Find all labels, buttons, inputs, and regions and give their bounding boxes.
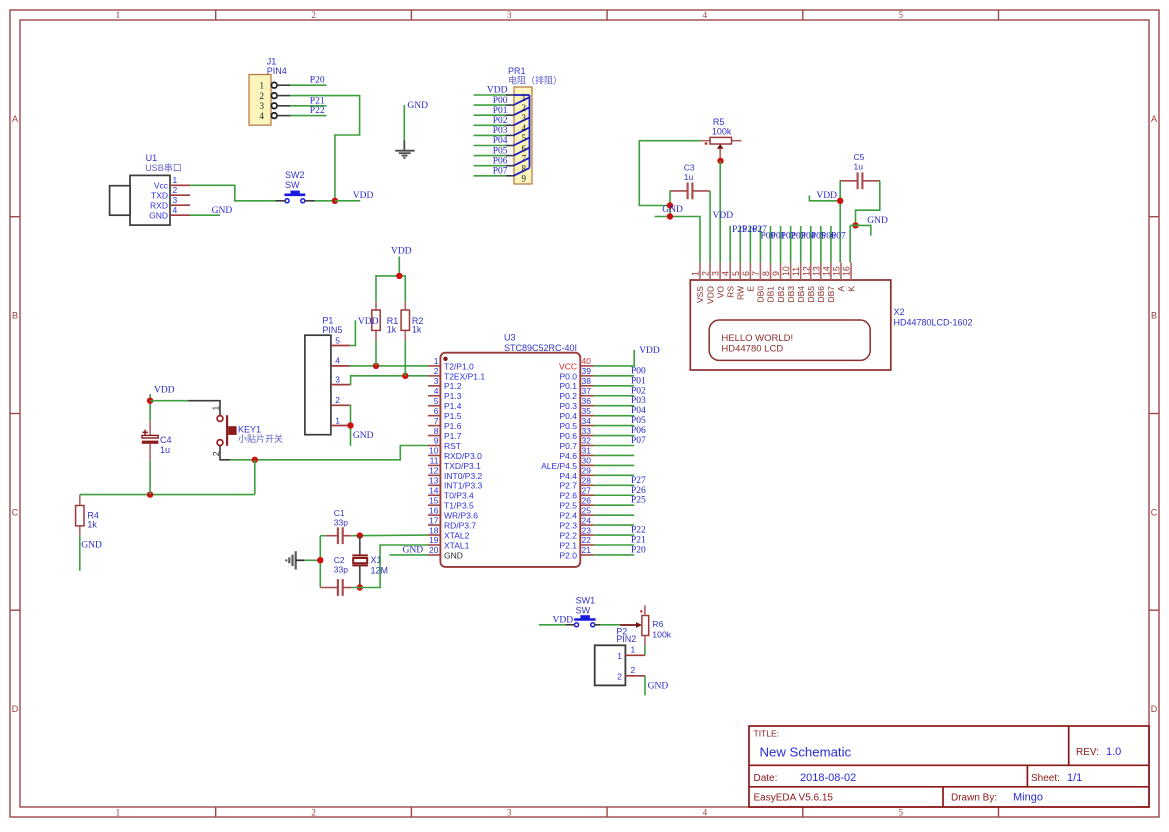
svg-text:P20: P20 <box>631 545 646 555</box>
svg-text:2: 2 <box>335 395 340 405</box>
svg-text:EasyEDA V5.6.15: EasyEDA V5.6.15 <box>754 793 834 804</box>
wire R6 to P2 pin1 <box>644 646 646 655</box>
wire LCD pin 9 vertical <box>780 226 782 263</box>
resistor network PR1 body <box>514 87 532 184</box>
junction GND at LCD K pin <box>852 222 858 228</box>
wire U3 pin 35 to net P04 <box>594 415 634 417</box>
svg-text:T0/P3.4: T0/P3.4 <box>444 491 474 501</box>
wire LCD pin 5 vertical <box>739 226 741 263</box>
wire LCD pin 4 vertical <box>729 226 731 263</box>
svg-text:10: 10 <box>429 446 439 456</box>
U3 right pin 34 stub <box>580 425 594 427</box>
wire VDD loop left of R5 <box>639 141 700 206</box>
svg-text:34: 34 <box>582 416 592 426</box>
svg-text:P02: P02 <box>493 116 508 126</box>
svg-text:13: 13 <box>429 476 439 486</box>
svg-text:RXD: RXD <box>150 201 168 211</box>
svg-text:6: 6 <box>522 143 527 153</box>
U3 left pin 13 stub <box>428 484 440 486</box>
ground symbol sideways at crystal <box>295 551 297 569</box>
svg-text:3: 3 <box>711 271 721 276</box>
svg-text:GND: GND <box>81 540 102 550</box>
wire LCD pin 8 vertical <box>769 226 771 263</box>
U3 left pin 4 stub <box>428 395 440 397</box>
title block REV divider <box>1068 726 1070 765</box>
junction C1/X1 top <box>357 532 363 538</box>
U3 left pin 6 stub <box>428 415 440 417</box>
wire C1 left loop down to C2 <box>319 536 321 588</box>
U3 left pin 2 stub <box>428 375 440 377</box>
svg-text:DB0: DB0 <box>756 286 766 303</box>
J1 pin 4 lead and circle <box>271 113 277 119</box>
svg-text:P02: P02 <box>631 386 646 396</box>
svg-text:P1.3: P1.3 <box>444 391 462 401</box>
wire U3 pin 34 to net P05 <box>594 425 634 427</box>
PR1 pin 9 wire and net label P07 <box>474 175 506 177</box>
svg-text:1: 1 <box>691 271 701 276</box>
svg-text:30: 30 <box>582 456 592 466</box>
wire U3 pin 32 to net P07 <box>594 445 634 447</box>
wire KEY1 to U3 RST <box>230 446 428 460</box>
svg-text:INT1/P3.3: INT1/P3.3 <box>444 481 483 491</box>
wire C4/R4 horizontal <box>80 494 255 496</box>
PR1 pin 8 wire and net label P06 <box>474 165 506 167</box>
svg-text:1: 1 <box>617 651 622 661</box>
LCD pin 16 stub <box>850 263 852 280</box>
frame row ticks right <box>1149 216 1159 218</box>
switch SW1 symbol <box>574 618 595 621</box>
U3 right pin 39 stub <box>580 375 594 377</box>
wire U3 pin 29 unlabeled <box>594 474 634 476</box>
U1 pin 3 stub <box>170 204 190 206</box>
wire U3 pin 38 to net P01 <box>594 385 634 387</box>
R6 pin1 marker dot <box>640 610 642 612</box>
U3 right pin 40 stub <box>580 365 594 367</box>
svg-text:P06: P06 <box>631 426 646 436</box>
wire R5 wiper down to LCD VO pin <box>719 161 721 263</box>
junction VDD at C5 <box>837 198 843 204</box>
svg-text:2018-08-02: 2018-08-02 <box>800 772 856 784</box>
svg-text:Vcc: Vcc <box>154 181 169 191</box>
title block Sheet divider <box>1026 765 1028 787</box>
crystal X1 top lead <box>359 536 361 556</box>
resistor R2 body <box>401 310 409 330</box>
title block outline <box>749 726 1149 807</box>
svg-text:GND: GND <box>867 216 888 226</box>
P2 pin 1 stub <box>625 654 645 656</box>
svg-text:DB1: DB1 <box>766 286 776 303</box>
svg-text:1: 1 <box>173 175 178 185</box>
wire R2 bottom to pin2 row <box>404 340 406 375</box>
svg-text:13: 13 <box>811 266 821 276</box>
svg-text:P0.2: P0.2 <box>560 391 578 401</box>
LCD pin 11 stub <box>800 263 802 280</box>
svg-text:P0.3: P0.3 <box>560 401 578 411</box>
svg-text:C: C <box>1151 507 1158 517</box>
svg-text:T2/P1.0: T2/P1.0 <box>444 361 474 371</box>
svg-text:VDD: VDD <box>154 385 175 395</box>
svg-text:P2.0: P2.0 <box>560 550 578 560</box>
potentiometer R5 body <box>710 137 732 144</box>
svg-text:A: A <box>836 286 846 292</box>
R5 pin1 marker dot <box>705 142 708 145</box>
svg-text:New Schematic: New Schematic <box>760 745 852 760</box>
svg-text:VDD: VDD <box>705 286 715 304</box>
U3 right pin 33 stub <box>580 435 594 437</box>
svg-text:1k: 1k <box>412 325 422 335</box>
svg-text:29: 29 <box>582 466 592 476</box>
svg-text:10: 10 <box>781 266 791 276</box>
svg-text:P0.6: P0.6 <box>560 431 578 441</box>
wire C3 right down to LCD VDD pin <box>709 191 711 263</box>
svg-text:1: 1 <box>211 406 221 411</box>
LCD pin 2 stub <box>709 263 711 280</box>
LCD pin 12 stub <box>810 263 812 280</box>
svg-text:P25: P25 <box>631 496 646 506</box>
USB connector U1 plug box <box>110 186 130 216</box>
svg-text:P04: P04 <box>631 406 646 416</box>
wire U3 pin 27 to net P26 <box>594 494 634 496</box>
svg-text:E: E <box>746 286 756 292</box>
svg-text:16: 16 <box>842 266 852 276</box>
wire LCD pin 12 vertical <box>810 226 812 263</box>
svg-text:1.0: 1.0 <box>1106 746 1121 758</box>
svg-text:VDD: VDD <box>487 86 508 96</box>
svg-text:3: 3 <box>434 376 439 386</box>
svg-text:STC89C52RC-40I: STC89C52RC-40I <box>504 343 577 353</box>
U3 left pin 14 stub <box>428 494 440 496</box>
svg-text:SW: SW <box>576 605 591 615</box>
junction GND wire <box>667 213 673 219</box>
P1 pin 5 stub <box>331 345 350 347</box>
PR1 resistor diagonal 1 <box>514 97 530 105</box>
junction VDD R1/R2 <box>396 273 402 279</box>
svg-text:VDD: VDD <box>358 317 379 327</box>
wire U3 pin 30 unlabeled <box>594 464 634 466</box>
capacitor C2 <box>337 579 339 596</box>
svg-text:P26: P26 <box>631 486 646 496</box>
wire stem of floating GND flag <box>403 105 405 140</box>
KEY1 pin2 lead <box>220 446 230 460</box>
wire P1 pin2 down to pin1/GND <box>349 405 352 446</box>
capacitor C3 <box>686 183 688 200</box>
svg-text:VCC: VCC <box>559 361 577 371</box>
PR1 first pin link <box>514 94 530 96</box>
LCD pin 1 stub <box>699 263 701 280</box>
PR1 pin 2 wire and net label P00 <box>474 104 506 106</box>
svg-text:31: 31 <box>582 446 592 456</box>
svg-text:C4: C4 <box>160 435 172 445</box>
junction at SW2/VDD <box>332 198 338 204</box>
C3 left lead <box>670 190 688 192</box>
svg-text:24: 24 <box>582 515 592 525</box>
wire U3 VCC to VDD <box>594 350 634 366</box>
polarized capacitor C4 top lead <box>149 421 151 436</box>
wire U3 GND pin20 <box>390 554 429 556</box>
svg-text:PIN5: PIN5 <box>322 325 342 335</box>
wire R1 bottom to pin1 row <box>375 340 377 366</box>
PR1 resistor diagonal 8 <box>514 168 530 176</box>
P1 pin 1 stub <box>331 425 350 427</box>
svg-text:A: A <box>1151 114 1157 124</box>
svg-text:21: 21 <box>582 545 592 555</box>
svg-text:3: 3 <box>260 101 265 111</box>
svg-text:X2: X2 <box>894 307 905 317</box>
svg-text:TITLE:: TITLE: <box>754 729 780 739</box>
svg-text:33p: 33p <box>334 564 348 574</box>
svg-text:17: 17 <box>429 515 439 525</box>
polarized capacitor C4 bottom lead <box>149 444 151 460</box>
svg-text:B: B <box>12 311 18 321</box>
svg-text:GND: GND <box>444 550 463 560</box>
wire LCD pin 6 vertical <box>749 226 751 263</box>
P1 pin 4 stub <box>331 365 350 367</box>
svg-text:P2.1: P2.1 <box>560 540 578 550</box>
switch SW2 symbol <box>284 194 305 197</box>
C5 right lead <box>862 180 879 182</box>
wire R4 bottom GND stub <box>79 535 81 571</box>
U3 right pin 36 stub <box>580 405 594 407</box>
wire LCD K pin vertical <box>849 225 851 262</box>
svg-text:P00: P00 <box>493 96 508 106</box>
svg-text:HD44780 LCD: HD44780 LCD <box>721 344 783 355</box>
svg-text:VDD: VDD <box>353 191 374 201</box>
U3 left pin 8 stub <box>428 435 440 437</box>
LCD X2 body <box>690 280 891 370</box>
svg-text:5: 5 <box>731 271 741 276</box>
svg-text:5: 5 <box>522 133 527 143</box>
svg-text:RW: RW <box>735 286 745 300</box>
resistor R4 body <box>76 506 84 526</box>
svg-text:D: D <box>1151 704 1158 714</box>
svg-text:小贴片开关: 小贴片开关 <box>238 433 283 444</box>
svg-text:RD/P3.7: RD/P3.7 <box>444 521 476 531</box>
svg-text:2: 2 <box>173 185 178 195</box>
svg-text:VSS: VSS <box>695 286 705 303</box>
svg-text:GND: GND <box>648 681 669 691</box>
title block row divider 2 <box>749 786 1149 788</box>
svg-text:19: 19 <box>429 535 439 545</box>
svg-text:26: 26 <box>582 495 592 505</box>
wire KEY1 junction down to C4/R4 row <box>254 460 256 495</box>
svg-text:36: 36 <box>582 396 592 406</box>
svg-text:P21: P21 <box>310 96 325 106</box>
U3 left pin 19 stub <box>428 544 440 546</box>
svg-text:P0.0: P0.0 <box>560 371 578 381</box>
svg-text:6: 6 <box>741 271 751 276</box>
wire J1 pin1 to net P20 <box>290 84 326 86</box>
PR1 pin 7 wire and net label P05 <box>474 155 506 157</box>
svg-text:37: 37 <box>582 386 592 396</box>
LCD pin 3 stub <box>719 263 721 280</box>
svg-text:2: 2 <box>701 271 711 276</box>
svg-text:P2.3: P2.3 <box>560 521 578 531</box>
svg-text:VDD: VDD <box>713 211 734 221</box>
switch KEY1 actuator bar <box>226 415 228 446</box>
U3 left pin 16 stub <box>428 514 440 516</box>
U3 right pin 24 stub <box>580 524 594 526</box>
svg-text:GND: GND <box>403 545 424 555</box>
svg-text:1: 1 <box>116 808 121 818</box>
svg-text:4: 4 <box>173 205 178 215</box>
svg-text:U1: U1 <box>146 153 158 163</box>
svg-text:P2.2: P2.2 <box>560 530 578 540</box>
wire LCD pin 10 vertical <box>790 226 792 263</box>
svg-text:DB2: DB2 <box>776 286 786 303</box>
wire U3 pin 33 to net P06 <box>594 435 634 437</box>
svg-text:38: 38 <box>582 376 592 386</box>
svg-text:Date:: Date: <box>754 773 778 784</box>
svg-text:2: 2 <box>434 366 439 376</box>
svg-text:P07: P07 <box>831 231 846 241</box>
svg-text:VDD: VDD <box>639 346 660 356</box>
svg-text:VDD: VDD <box>816 191 837 201</box>
LCD pin 9 stub <box>780 263 782 280</box>
R4 bottom lead <box>79 526 81 535</box>
svg-text:1k: 1k <box>387 325 397 335</box>
MCU U3 pin1 marker <box>443 357 447 361</box>
wire U3 pin 26 to net P25 <box>594 504 634 506</box>
svg-text:KEY1: KEY1 <box>238 424 261 434</box>
svg-text:P0.4: P0.4 <box>560 411 578 421</box>
junction R1 bottom <box>373 363 379 369</box>
svg-text:12: 12 <box>801 266 811 276</box>
svg-text:35: 35 <box>582 406 592 416</box>
svg-text:VDD: VDD <box>553 615 574 625</box>
U1 pin 2 stub <box>170 194 190 196</box>
svg-text:P1.7: P1.7 <box>444 431 462 441</box>
svg-text:SW: SW <box>285 180 300 190</box>
svg-text:1: 1 <box>335 415 340 425</box>
junction loop/ground <box>317 557 323 563</box>
capacitor C1 <box>337 527 339 544</box>
svg-text:2: 2 <box>260 91 265 101</box>
svg-text:1u: 1u <box>160 445 170 455</box>
wire P1 pin4 to U3 pin1 (with R1 junction) <box>350 365 428 367</box>
svg-text:RST: RST <box>444 441 461 451</box>
LCD pin 5 stub <box>739 263 741 280</box>
wire VDD down to C4 <box>149 394 151 421</box>
wire U3 pin 28 to net P27 <box>594 484 634 486</box>
junction R2 bottom <box>402 373 408 379</box>
wire LCD pin 11 vertical <box>800 226 802 263</box>
svg-text:P2.4: P2.4 <box>560 511 578 521</box>
svg-text:11: 11 <box>791 267 801 276</box>
svg-text:INT0/P3.2: INT0/P3.2 <box>444 471 483 481</box>
junction below R5 wiper <box>717 158 723 164</box>
polarized capacitor C4 plus sign <box>142 431 147 433</box>
svg-text:7: 7 <box>751 271 761 276</box>
svg-text:GND: GND <box>353 431 374 441</box>
PR1 resistor diagonal 7 <box>514 158 530 166</box>
svg-text:RS: RS <box>725 286 735 298</box>
svg-text:P4.6: P4.6 <box>560 451 578 461</box>
svg-text:R6: R6 <box>652 619 663 629</box>
svg-text:P21: P21 <box>631 536 646 546</box>
svg-text:20: 20 <box>429 545 439 555</box>
svg-text:XTAL2: XTAL2 <box>444 530 470 540</box>
svg-text:8: 8 <box>522 164 527 174</box>
svg-text:P0.5: P0.5 <box>560 421 578 431</box>
wire C3 left down to GND junction <box>669 191 671 217</box>
svg-text:GND: GND <box>407 101 428 111</box>
svg-text:100k: 100k <box>712 126 732 136</box>
svg-text:33: 33 <box>582 426 592 436</box>
LCD pin 6 stub <box>749 263 751 280</box>
svg-text:3: 3 <box>173 195 178 205</box>
svg-text:16: 16 <box>429 505 439 515</box>
junction C3-left / VDD-loop <box>667 202 673 208</box>
wire J1 pin2 long route to SW2/VDD junction <box>290 96 359 201</box>
R6 bottom lead <box>644 636 646 647</box>
svg-text:12: 12 <box>429 466 439 476</box>
svg-text:5: 5 <box>898 10 903 20</box>
svg-text:P2.7: P2.7 <box>560 481 578 491</box>
U3 left pin 17 stub <box>428 524 440 526</box>
svg-text:4: 4 <box>703 808 708 818</box>
svg-text:GND: GND <box>662 205 683 215</box>
svg-text:DB5: DB5 <box>806 286 816 303</box>
svg-text:Mingo: Mingo <box>1013 792 1043 804</box>
PR1 resistor diagonal 2 <box>514 107 530 115</box>
svg-text:4: 4 <box>522 123 527 133</box>
crystal X1 body <box>352 554 368 556</box>
LCD pin 10 stub <box>790 263 792 280</box>
svg-text:P4.4: P4.4 <box>560 471 578 481</box>
svg-text:4: 4 <box>260 111 265 121</box>
U3 left pin 3 stub <box>428 385 440 387</box>
PR1 resistor diagonal 6 <box>514 148 530 156</box>
svg-text:XTAL1: XTAL1 <box>444 540 470 550</box>
C5 left lead <box>840 180 858 182</box>
junction C4 bottom <box>147 491 153 497</box>
wire J1 pin4 to net P22 <box>290 115 326 117</box>
LCD pin 15 stub <box>840 263 842 280</box>
svg-text:C2: C2 <box>334 555 345 565</box>
PR1 pin 4 wire and net label P02 <box>474 124 506 126</box>
svg-text:P1.4: P1.4 <box>444 401 462 411</box>
svg-text:1: 1 <box>434 356 439 366</box>
svg-text:3: 3 <box>335 374 340 384</box>
P1 pin 3 stub <box>331 384 350 386</box>
frame row ticks left <box>10 216 20 218</box>
U3 left pin 5 stub <box>428 405 440 407</box>
MCU U3 body <box>440 353 580 567</box>
svg-text:3: 3 <box>507 10 512 20</box>
LCD pin 8 stub <box>769 263 771 280</box>
svg-text:P04: P04 <box>493 136 508 146</box>
wire SW2 to VDD junction <box>315 200 335 202</box>
svg-text:11: 11 <box>430 456 439 466</box>
LCD pin 14 stub <box>830 263 832 280</box>
title block DrawnBy divider <box>942 787 944 807</box>
svg-text:28: 28 <box>582 476 592 486</box>
svg-text:GND: GND <box>149 211 168 221</box>
svg-text:1/1: 1/1 <box>1067 772 1082 784</box>
svg-text:WR/P3.6: WR/P3.6 <box>444 511 478 521</box>
svg-text:18: 18 <box>429 525 439 535</box>
svg-text:P1.2: P1.2 <box>444 381 462 391</box>
wire GND jog at LCD K pin <box>850 225 871 235</box>
svg-text:8: 8 <box>761 271 771 276</box>
U3 left pin 18 stub <box>428 534 440 536</box>
frame column ticks bottom <box>215 807 217 817</box>
U3 right pin 30 stub <box>580 464 594 466</box>
svg-text:PIN4: PIN4 <box>267 66 287 76</box>
wire C5 left down to VDD junction and LCD A pin <box>839 181 841 263</box>
svg-text:P07: P07 <box>493 167 508 177</box>
svg-text:TXD/P3.1: TXD/P3.1 <box>444 461 481 471</box>
